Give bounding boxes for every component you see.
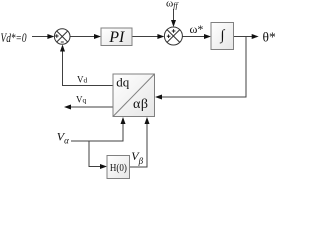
svg-text:θ*: θ* (263, 30, 276, 45)
svg-text:Vd*=0: Vd*=0 (1, 31, 28, 45)
svg-text:Vd: Vd (77, 75, 88, 85)
svg-text:ω*: ω* (190, 22, 204, 36)
svg-text:dq: dq (116, 75, 130, 90)
svg-text:αβ: αβ (133, 97, 149, 112)
svg-text:Vq: Vq (76, 95, 87, 105)
svg-text:PI: PI (108, 29, 125, 46)
svg-text:ωff: ωff (166, 0, 179, 10)
svg-text:H(0): H(0) (110, 163, 127, 174)
